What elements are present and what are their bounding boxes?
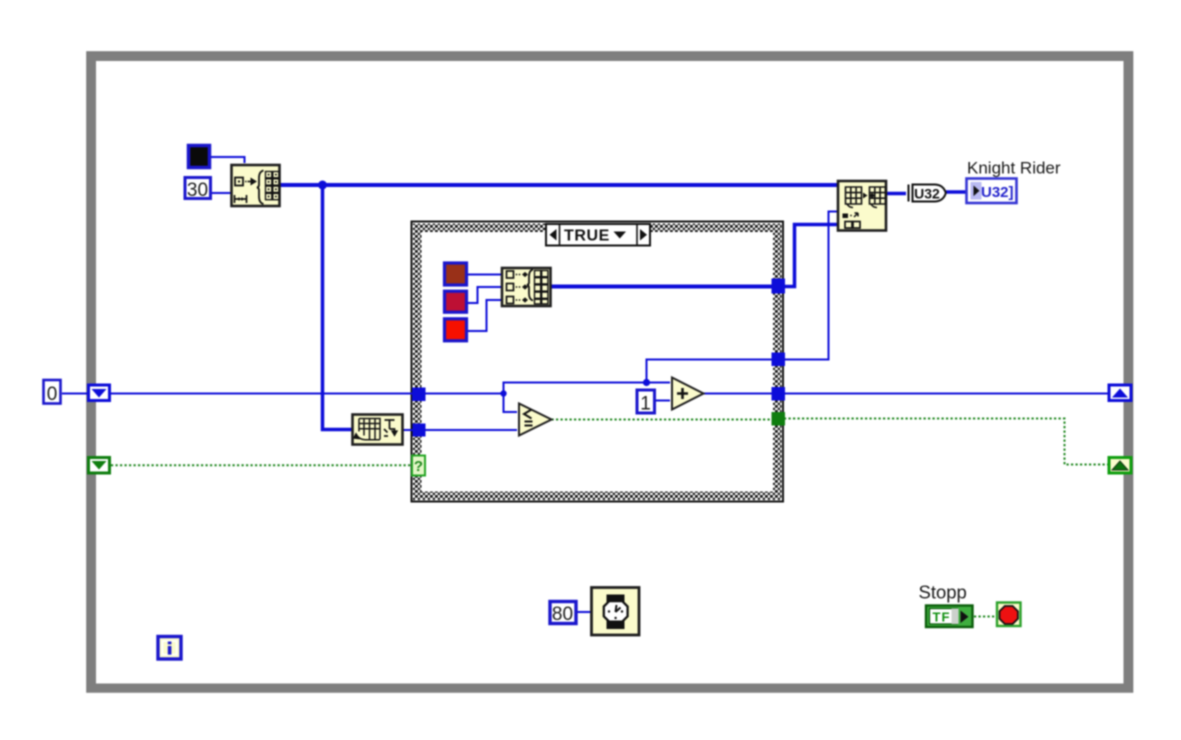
svg-text:TF: TF <box>933 610 951 625</box>
svg-text:U32: U32 <box>914 186 940 202</box>
svg-text:0: 0 <box>47 384 58 405</box>
svg-text:80: 80 <box>552 604 573 625</box>
svg-text:?: ? <box>414 458 423 475</box>
svg-text:30: 30 <box>187 180 208 201</box>
svg-text:Knight Rider: Knight Rider <box>967 159 1061 178</box>
svg-text:U32]: U32] <box>981 184 1014 201</box>
svg-text:TRUE: TRUE <box>564 228 610 245</box>
svg-text:Stopp: Stopp <box>919 582 967 603</box>
svg-text:1: 1 <box>640 394 651 415</box>
